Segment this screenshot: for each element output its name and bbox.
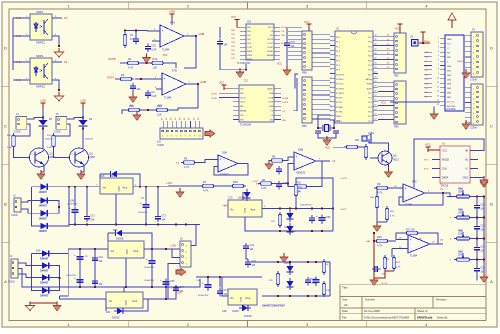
svg-text:1N4007: 1N4007: [39, 230, 48, 233]
power port CON9 arrow: [205, 130, 215, 137]
junction K7B out: [197, 83, 199, 85]
svg-text:1N4148: 1N4148: [85, 138, 93, 140]
svg-text:CS: CS: [282, 111, 286, 113]
svg-text:40: 40: [375, 34, 377, 36]
wire +12V to node: [82, 108, 84, 118]
svg-text:+: +: [74, 253, 76, 257]
svg-text:LCD1602: LCD1602: [446, 109, 456, 111]
MCU pin text right: [366, 37, 373, 123]
wire C17 drop: [219, 277, 221, 288]
resistor R5: [181, 157, 197, 170]
svg-text:P3.0RxD: P3.0RxD: [336, 79, 344, 81]
svg-text:NE5532: NE5532: [296, 170, 306, 174]
diode D31 1N4007: [38, 197, 51, 203]
EEPROM box A1: [440, 146, 470, 183]
svg-text:104: 104: [136, 88, 141, 91]
svg-text:R6: R6: [272, 155, 276, 159]
svg-text:Y4: Y4: [332, 159, 336, 163]
capacitor C13: [474, 224, 485, 232]
wires MCU to C6: [378, 82, 394, 119]
wire C13 down: [476, 232, 478, 239]
wire R9 to K7C: [390, 187, 403, 189]
wires IC2 to bus vertical 2: [293, 78, 297, 111]
svg-text:VCC: VCC: [425, 143, 431, 147]
wire A1 gnd: [478, 178, 484, 181]
resistor R13: [150, 57, 166, 70]
svg-text:C10: C10: [480, 203, 485, 206]
capacitor C14: [474, 245, 485, 253]
svg-text:P2.5: P2.5: [368, 102, 372, 104]
capacitor C41: [92, 255, 103, 263]
svg-text:P3.7RD: P3.7RD: [336, 112, 343, 114]
svg-text:OUTB: OUTB: [211, 93, 217, 95]
svg-text:34: 34: [375, 62, 377, 64]
svg-text:DIODE: DIODE: [116, 238, 124, 241]
svg-text:Q5: Q5: [393, 154, 397, 158]
regulator U6 text: [230, 208, 255, 214]
junction lower rail: [307, 261, 309, 263]
junction R35: [476, 217, 478, 219]
junction +rail2: [79, 248, 81, 250]
wire K7A top rail: [125, 29, 147, 32]
svg-text:15: 15: [437, 100, 439, 102]
svg-text:1N4007: 1N4007: [40, 282, 49, 285]
pins C6: [396, 84, 398, 123]
svg-text:27: 27: [375, 95, 377, 97]
power ground LCD: [430, 110, 438, 120]
svg-text:100uF/25: 100uF/25: [138, 212, 148, 214]
wire U6 gnd bus: [262, 230, 333, 232]
wire R36 right: [472, 238, 484, 240]
diode D6: [79, 118, 88, 129]
wire SRP1 input A: [13, 17, 30, 19]
regulator D46 text: [103, 186, 128, 192]
svg-text:24: 24: [375, 109, 377, 111]
junction +rail cap: [74, 186, 76, 188]
power ground bridge2: [53, 302, 61, 312]
svg-text:K4: K4: [387, 53, 389, 55]
diode D43: [113, 230, 125, 237]
junction K7C out: [442, 192, 444, 194]
svg-text:CON8: CON8: [470, 79, 477, 82]
maroon bus K7D: [373, 233, 375, 278]
junction diode top: [42, 117, 44, 119]
diode D49 1N4007: [239, 305, 251, 312]
diode D36 1N4007: [39, 274, 52, 280]
wire +15V stem: [171, 19, 173, 25]
svg-text:36: 36: [375, 53, 377, 55]
wire LCD gnd drop: [433, 107, 435, 113]
op-amp D9B: [294, 152, 316, 174]
wire U6 adj drop: [245, 217, 262, 231]
resistor R30: [375, 194, 378, 210]
svg-text:R1: R1: [128, 57, 132, 61]
power ground XTAL: [323, 136, 331, 146]
junction reg2 out2: [165, 248, 167, 250]
svg-text:26: 26: [375, 100, 377, 102]
resistor R11: [364, 144, 367, 160]
svg-text:SRP12: SRP12: [36, 84, 45, 88]
svg-text:VCC: VCC: [231, 16, 236, 19]
junction bridge1 plus: [68, 186, 70, 188]
wire R13 to K7A: [166, 63, 177, 68]
svg-text:DGND: DGND: [267, 47, 273, 49]
diode D48: [287, 210, 294, 222]
svg-text:Vout: Vout: [122, 186, 127, 190]
junction R24 R14: [147, 109, 149, 111]
resistor R4: [118, 73, 134, 81]
junction C17: [219, 276, 221, 278]
svg-text:P1.3: P1.3: [336, 51, 340, 53]
svg-text:20K: 20K: [459, 231, 463, 233]
svg-text:Date: Date: [342, 309, 348, 313]
diode D35 1N4007: [39, 262, 52, 268]
resistor R7: [200, 180, 216, 193]
svg-text:Vout: Vout: [133, 249, 138, 253]
ground below SRP4: [55, 92, 64, 101]
wire SRP1 output: [52, 17, 62, 19]
svg-text:P2.1: P2.1: [368, 121, 372, 123]
svg-text:100uF/25V: 100uF/25V: [144, 280, 155, 282]
svg-text:CLK: CLK: [442, 168, 447, 171]
svg-text:SCLK: SCLK: [268, 27, 274, 29]
net labels IC9 left: [231, 30, 236, 60]
svg-text:P2.2: P2.2: [368, 116, 372, 118]
svg-text:R9: R9: [377, 182, 381, 186]
potentiometer R37 20K: [454, 250, 472, 261]
svg-text:REFA: REFA: [247, 58, 253, 61]
svg-text:Vin: Vin: [230, 296, 234, 300]
capacitor C2: [130, 83, 141, 91]
wires P1 left stubs: [465, 36, 471, 73]
svg-text:4.7K: 4.7K: [377, 191, 383, 195]
svg-text:VPO: VPO: [240, 119, 245, 121]
wire A1 vcc: [428, 150, 440, 152]
svg-text:20K: 20K: [459, 210, 463, 212]
svg-text:REFAB: REFAB: [240, 110, 247, 113]
diode D44: [114, 308, 126, 315]
component U2 switch: [412, 40, 419, 47]
IC2 pin text right: [268, 88, 274, 122]
svg-text:P0.6: P0.6: [368, 70, 372, 72]
bridge1 left wire: [32, 187, 38, 226]
junction bus R35: [483, 217, 485, 219]
wires PB8 to MCU: [312, 35, 330, 67]
resistor R10b: [374, 235, 390, 248]
wire K7A feedback: [184, 36, 196, 68]
junction R4 out: [140, 78, 142, 80]
power arrow above LCD: [448, 13, 456, 28]
label 1N4007 2200UF: [262, 305, 285, 308]
svg-text:D14: D14: [36, 249, 41, 252]
svg-text:1N4007: 1N4007: [39, 218, 48, 221]
svg-text:OUTA: OUTA: [282, 97, 288, 100]
svg-text:P3.4T0: P3.4T0: [336, 98, 342, 100]
pins J10: [162, 130, 200, 132]
svg-text:-: -: [162, 41, 163, 45]
wire C52 to bus: [151, 267, 153, 287]
junction lower rail2: [277, 295, 279, 297]
wire LM317 rail verticals: [207, 277, 209, 282]
svg-text:Vout: Vout: [132, 299, 137, 303]
svg-text:+: +: [296, 155, 298, 159]
svg-text:12K: 12K: [153, 66, 158, 70]
power port VCC C5: [397, 24, 402, 29]
wire R1-R13 node: [141, 62, 150, 64]
regulator LM317 text: [230, 296, 250, 302]
svg-text:P1.0: P1.0: [336, 37, 340, 39]
pin number D9B: [319, 159, 321, 161]
wire R26 bottom: [295, 198, 297, 209]
power ground A1: [480, 178, 488, 188]
svg-text:12: 12: [437, 86, 439, 88]
LCD module box: [445, 35, 464, 111]
capacitor C10: [474, 203, 485, 211]
resistor R19: [322, 259, 325, 275]
wire Q5 emitter: [388, 166, 390, 170]
svg-text:R21: R21: [355, 140, 360, 142]
title block outline: [340, 285, 486, 321]
svg-text:6: 6: [438, 60, 439, 62]
svg-text:9013: 9013: [393, 158, 399, 162]
svg-text:P0.3: P0.3: [368, 56, 372, 58]
svg-text:+0dB: +0dB: [198, 32, 204, 36]
svg-text:Revision: Revision: [436, 297, 447, 301]
svg-text:RW: RW: [447, 57, 450, 59]
wire C14 down: [476, 253, 478, 260]
junction R1 R13: [146, 62, 148, 64]
wire D9A out: [238, 163, 248, 165]
wire reg3 out: [143, 287, 176, 299]
svg-text:C19: C19: [480, 266, 485, 269]
diode D45 1N4007: [108, 0, 120, 177]
svg-text:-: -: [405, 197, 406, 201]
diode D64: [287, 263, 294, 275]
pin numbers MCU left: [330, 36, 332, 122]
capacitor C23: [309, 215, 315, 223]
wire XTAL gnd: [318, 133, 336, 138]
svg-text:2: 2: [438, 42, 439, 44]
svg-text:104: 104: [223, 293, 228, 296]
wire C13 branch: [476, 218, 478, 224]
wire XTAL loop: [318, 115, 330, 128]
wire reg2 out: [144, 248, 180, 250]
svg-text:35: 35: [375, 58, 377, 60]
pin numbers K7D in: [399, 238, 402, 250]
junction R26: [295, 208, 297, 210]
svg-text:C48: C48: [222, 310, 227, 313]
wire OUTA chain: [115, 78, 119, 80]
wire C41 to bus: [94, 249, 96, 287]
wire J6 pin1: [168, 264, 180, 300]
junction reg2 out: [151, 248, 153, 250]
pin number K7B out: [189, 82, 191, 84]
svg-text:104: 104: [249, 248, 254, 251]
svg-text:VO: VO: [447, 48, 450, 50]
svg-text:8050: 8050: [90, 156, 96, 159]
junction lower rail: [315, 261, 317, 263]
svg-text:K1: K1: [387, 39, 389, 41]
svg-text:D9A: D9A: [222, 150, 227, 154]
svg-text:+: +: [164, 77, 166, 81]
svg-text:Vin: Vin: [103, 186, 107, 190]
wire C2 bottom gnd: [132, 91, 134, 95]
svg-text:104: 104: [480, 250, 485, 253]
pin numbers LCD: [437, 37, 439, 106]
net label pin R34: [450, 197, 452, 199]
wire IC9 decoupling: [286, 27, 288, 40]
wire C7 dn: [145, 210, 147, 225]
wire K7B feedback: [178, 84, 198, 108]
capacitor C71: [84, 214, 95, 222]
svg-text:K-S: K-S: [16, 34, 21, 38]
power ground P2: [462, 120, 470, 130]
svg-text:+: +: [146, 257, 148, 261]
junction reg1 out: [139, 186, 141, 188]
svg-text:P1.7: P1.7: [336, 70, 340, 72]
connector P2 CON8: [471, 84, 483, 125]
svg-text:C50: C50: [170, 280, 175, 283]
wires A1 left pins: [432, 160, 440, 178]
wire SRP4 output: [52, 61, 62, 63]
wire C3 top: [135, 30, 137, 36]
wires IC2 left nets: [219, 93, 233, 97]
junction ground bus: [86, 224, 88, 226]
wire D9B out: [316, 160, 330, 162]
svg-text:104: 104: [90, 219, 95, 222]
svg-text:Number: Number: [365, 297, 375, 301]
wire Q5 collector: [369, 139, 389, 150]
capacitor C76: [74, 253, 84, 263]
junction ground bus: [74, 224, 76, 226]
power port VCC PB8: [306, 24, 311, 29]
wire emitter down: [81, 166, 84, 172]
wire K7D plus drop: [391, 249, 393, 258]
wire R26: [296, 178, 333, 209]
optocoupler SRP1: [30, 14, 52, 40]
capacitor C17: [217, 288, 228, 296]
resistor R31: [385, 206, 388, 222]
bridge2 right zigzag A: [52, 266, 60, 291]
wire C70 down: [286, 48, 288, 68]
svg-text:CON3: CON3: [8, 280, 15, 283]
junction U2: [422, 42, 424, 44]
capacitor C25: [310, 276, 320, 286]
svg-text:2200UF/50V: 2200UF/50V: [300, 204, 313, 206]
svg-text:+15V: +15V: [170, 244, 176, 248]
junction ground bus2: [125, 286, 127, 288]
svg-text:CH1: CH1: [247, 35, 251, 37]
junction U6 out bus: [311, 208, 313, 210]
svg-text:C: C: [4, 123, 7, 128]
wire SRP1 emitter to ground: [52, 36, 59, 46]
svg-text:K2: K2: [387, 44, 389, 46]
svg-text:TL084: TL084: [405, 202, 413, 206]
svg-text:+: +: [310, 276, 312, 280]
MCU notch: [351, 31, 357, 34]
svg-text:SRP12: SRP12: [36, 40, 45, 44]
junction diode bottom: [82, 128, 84, 130]
junction U6 gnd bus: [289, 230, 291, 232]
svg-text:DOUT: DOUT: [268, 43, 274, 45]
potentiometer R35 20K: [454, 208, 472, 219]
svg-text:P2.6: P2.6: [368, 98, 372, 100]
svg-text:-15V: -15V: [162, 53, 168, 57]
svg-text:K4: K4: [64, 16, 68, 20]
wire +12V to node: [42, 108, 44, 118]
bridge2 mid tap: [52, 277, 60, 279]
wire VCC PB8 stem: [308, 29, 310, 31]
connector P1 CON8: [471, 32, 483, 77]
optocoupler SRP4: [30, 58, 52, 84]
wire cap C7 branch: [145, 187, 147, 201]
wire SRP4 emitter to ground: [52, 80, 59, 90]
svg-text:16-Jun-2008: 16-Jun-2008: [364, 309, 380, 313]
power ground R24: [133, 111, 141, 121]
svg-text:14: 14: [437, 95, 439, 97]
wire bridge2 center: [18, 269, 62, 288]
resistor R20: [230, 180, 246, 188]
svg-text:33: 33: [375, 67, 377, 69]
svg-text:VDD: VDD: [240, 89, 245, 91]
voltage regulator D44 7915: [106, 292, 143, 308]
power port +12V: [40, 99, 47, 108]
wire gnd bracket: [30, 303, 57, 306]
wires IC2 to bus vertical: [295, 74, 298, 89]
svg-text:TL084: TL084: [410, 253, 418, 257]
junction ground bus: [157, 224, 159, 226]
svg-text:PB9: PB9: [302, 125, 307, 128]
power port VCC ADC: [234, 20, 239, 25]
junction bus R34: [483, 196, 485, 198]
junction +rail2: [94, 248, 96, 250]
svg-text:CON2: CON2: [14, 131, 21, 134]
op-amp D9A: [218, 155, 238, 176]
wire emitter down: [41, 166, 44, 172]
svg-text:VCC: VCC: [219, 82, 224, 85]
svg-text:CON9: CON9: [157, 144, 164, 147]
wires J10 top stubs: [163, 121, 199, 128]
svg-text:BG GND: BG GND: [447, 106, 456, 108]
IC2 pin text left: [240, 89, 247, 122]
wire R21 right: [360, 146, 368, 148]
junction +rail cap2: [86, 186, 88, 188]
svg-text:4.7K: 4.7K: [184, 165, 190, 169]
ground bridge2 left: [26, 302, 35, 311]
svg-text:K1: K1: [64, 60, 68, 64]
wire bridge2 - rail: [60, 296, 107, 299]
wire lower rail top: [250, 261, 330, 263]
svg-text:P0.1: P0.1: [368, 46, 372, 48]
svg-text:A4: A4: [344, 303, 348, 307]
wires A1 right pins: [470, 151, 478, 178]
capacitor C52: [146, 257, 156, 267]
svg-text:16: 16: [437, 104, 439, 106]
optocoupler SRP1 internals: [34, 19, 48, 35]
svg-text:OUTA: OUTA: [107, 76, 114, 80]
wire K7B out: [186, 83, 198, 85]
label 20K R37: [459, 252, 463, 254]
power ground D9A: [265, 160, 273, 170]
svg-text:OUTB: OUTB: [282, 102, 289, 104]
power ground R7: [176, 188, 184, 198]
wire reg3 out right: [165, 287, 167, 299]
capacitor C39: [372, 266, 380, 272]
wire U2 vcc: [422, 37, 424, 43]
wire SRP4 input B: [13, 79, 30, 81]
pins PB9: [304, 80, 306, 120]
diode D5: [39, 118, 48, 129]
